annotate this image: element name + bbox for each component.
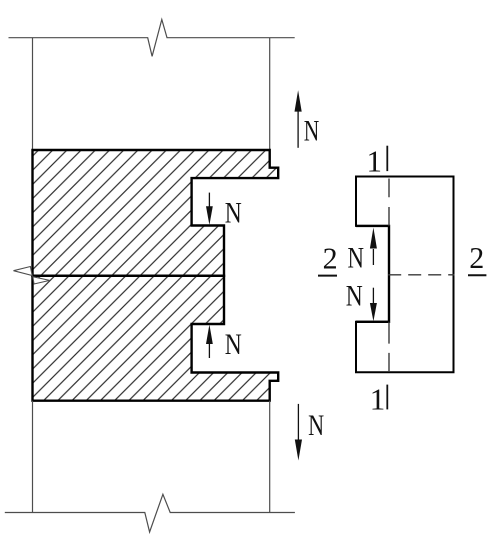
top column left wire [32,38,34,150]
lower notch arrow N (up) [208,338,210,358]
section line 1-1 vertical dashed [388,179,390,226]
mid split line [33,275,225,277]
svg-text:N: N [308,409,324,442]
upper notch arrow N (down) [208,193,210,212]
svg-text:2: 2 [469,240,484,275]
section line 1 bottom tick [386,385,388,410]
svg-text:N: N [348,242,365,275]
lower hatched block [33,276,279,401]
upper hatched block [33,150,279,276]
bottom column right wire [269,401,271,513]
mid-line break symbol lower triangle [33,277,50,284]
bottom break line [5,494,295,532]
bottom column left wire [32,401,34,513]
section line 2-2 horizontal dashed [388,274,454,276]
svg-text:N: N [346,279,363,312]
plan notch edges (thick) [356,226,389,322]
svg-text:2: 2 [323,240,338,275]
svg-text:N: N [304,114,320,147]
section line 2 right tick [468,274,486,276]
top column right wire [269,38,271,150]
plan view outline [356,177,454,373]
section line 2 left tick [318,275,337,277]
upper right arrow N (up) [297,108,299,148]
svg-text:N: N [225,197,242,230]
section line 1 top tick [386,146,388,171]
svg-text:1: 1 [370,382,386,417]
top break line [9,20,295,57]
svg-text:N: N [225,328,242,361]
lower right arrow N (down) [297,404,299,442]
plan upper arrow N (up) [372,249,374,265]
mid-line break symbol upper triangle [14,267,33,276]
plan lower arrow N (down) [372,288,374,304]
svg-text:1: 1 [367,143,383,178]
